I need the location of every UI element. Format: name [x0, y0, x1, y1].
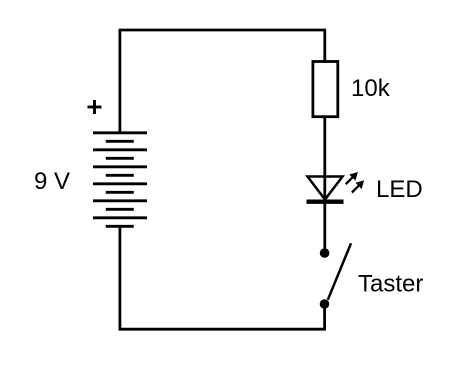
svg-text:LED: LED [376, 176, 423, 203]
wire resistor to LED [323, 117, 326, 202]
battery B1 (9V multi-cell) [93, 133, 147, 227]
LED light arrow 1 [346, 173, 358, 185]
svg-text:10k: 10k [351, 75, 391, 102]
svg-text:9 V: 9 V [34, 168, 70, 195]
switch S1 top contact dot [320, 248, 330, 258]
wire right upper (top to resistor) [323, 30, 326, 61]
resistor R1 body [313, 62, 338, 117]
LED cathode bar [307, 200, 344, 204]
wire bottom horizontal [119, 328, 325, 331]
wire left upper (top to battery +) [119, 30, 122, 133]
plus polarity symbol [88, 100, 102, 114]
wire switch bottom to bottom wire [323, 304, 326, 331]
svg-text:Taster: Taster [358, 271, 423, 298]
wire LED to switch top contact [323, 202, 326, 249]
LED D1 triangle (anode) [308, 177, 343, 200]
wire left lower (battery - to bottom) [119, 226, 122, 330]
switch S1 bottom contact dot [320, 299, 330, 309]
LED light arrow 2 [352, 181, 364, 193]
wire top horizontal [119, 29, 327, 32]
switch S1 lever [328, 243, 351, 299]
